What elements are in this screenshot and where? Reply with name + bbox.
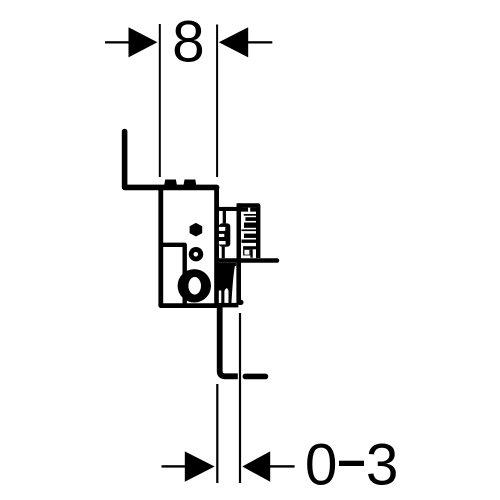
extension line right (top dimension)	[216, 25, 218, 178]
thread stripe 6	[242, 240, 258, 243]
svg-text:3: 3	[366, 432, 399, 497]
clamp notch 2	[219, 234, 224, 237]
dimension arrow right (bottom)	[242, 451, 294, 481]
washer small circle	[189, 247, 203, 261]
hexagon nut	[190, 223, 203, 237]
extension line right (bottom dimension)	[239, 313, 241, 483]
bottom hook	[220, 303, 238, 376]
svg-text:8: 8	[172, 10, 205, 75]
inner dark column	[250, 249, 252, 257]
spring slit white	[224, 288, 228, 303]
tab 1 on body top	[164, 180, 177, 186]
bottom bar under spring mass	[219, 303, 239, 308]
floor dash	[243, 374, 269, 380]
grommet big circle	[178, 269, 211, 302]
spring mass block	[219, 263, 237, 304]
extension line left (top dimension)	[159, 24, 161, 177]
extension line left (bottom dimension)	[216, 384, 218, 483]
tab 2 on body top	[184, 180, 197, 186]
rod foot	[237, 300, 244, 305]
thread stripe 1	[244, 214, 256, 216]
dimension dash	[339, 461, 364, 466]
square hole white	[244, 250, 249, 255]
clamp bar	[217, 207, 237, 211]
thread stripe 5	[244, 234, 257, 238]
clamp notch 3	[219, 241, 226, 245]
thread stripe 3	[244, 223, 257, 228]
spring notch white	[219, 291, 222, 304]
support arm	[217, 258, 279, 263]
thread block	[243, 246, 257, 249]
clamp pin vertical	[223, 209, 226, 223]
thread stripe 4	[242, 229, 258, 231]
dimension arrow left (top)	[105, 27, 157, 57]
dimension arrow left (bottom)	[162, 451, 215, 481]
dimension arrow right (top)	[219, 27, 272, 57]
spring wedge white	[231, 266, 236, 304]
svg-text:0: 0	[305, 432, 338, 497]
clamp notch 1	[219, 227, 225, 231]
thread stripe 2	[245, 217, 257, 221]
housing tab right	[250, 208, 257, 212]
square frame dark	[243, 249, 250, 255]
body rectangle	[161, 188, 217, 306]
inner step line	[161, 245, 185, 306]
clamp blob	[219, 223, 230, 246]
threaded rod vertical	[237, 203, 242, 304]
housing tab left	[241, 208, 248, 212]
nut housing outline	[239, 205, 259, 258]
L wall bracket	[125, 132, 217, 188]
clamp stub below	[222, 247, 225, 259]
